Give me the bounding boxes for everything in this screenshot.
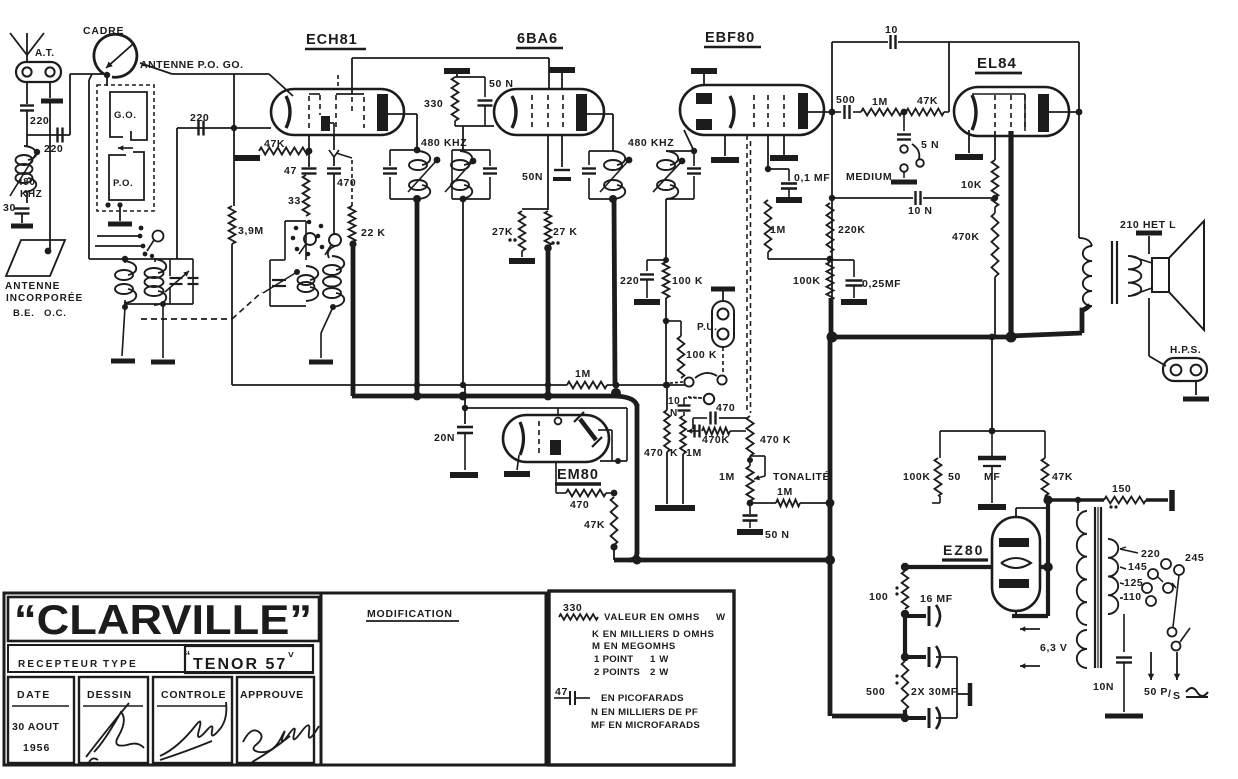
tube ECH81 (271, 89, 404, 135)
tap 220 (1120, 549, 1138, 553)
chassis bar (P.U.) (711, 287, 735, 292)
CONTROLE box (153, 677, 232, 763)
resistor 1M (EBF80 g2) (765, 200, 772, 252)
svg-text:EL84: EL84 (977, 55, 1017, 72)
capacitor 220 (to ECH81) (197, 121, 199, 136)
resistor 1M (AVC) (567, 382, 607, 389)
G.O. coil loop (110, 92, 147, 140)
switch MEDIUM (900, 145, 908, 153)
svg-text:O.C.: O.C. (44, 308, 67, 319)
EM80 control rect (550, 440, 561, 455)
terminal bar 210 (1136, 231, 1162, 236)
svg-text:“CLARVILLE”: “CLARVILLE” (14, 596, 312, 643)
svg-text:EN PICOFARADS: EN PICOFARADS (601, 693, 684, 704)
PT primary lead (1077, 500, 1079, 511)
ground (27K) (521, 251, 523, 257)
svg-text:125: 125 (1124, 577, 1143, 589)
EL84 cathode (972, 95, 976, 130)
wire IFT1 sec top up (462, 126, 464, 150)
capacitor 220 (series) (56, 128, 58, 143)
resistor 27K left (519, 211, 526, 251)
node 16MF (901, 610, 909, 618)
capacitor 500 (832, 111, 841, 113)
capacitor 220 (det) (647, 259, 666, 261)
svg-text:220: 220 (190, 112, 209, 124)
wire A.T. gnd (49, 82, 51, 98)
svg-text:2X 30MF: 2X 30MF (911, 686, 958, 698)
variable cap padder (272, 279, 286, 281)
capacitor 10 (feedback) (832, 41, 888, 43)
ECH81 cathode (286, 96, 290, 128)
resistor 470K (vol top) (746, 416, 753, 456)
svg-text:100K: 100K (903, 471, 931, 483)
resistor 1M (agc) (683, 412, 685, 416)
capacitor 220 (A.T.) (20, 104, 34, 106)
EM80 target (580, 419, 596, 440)
chassis bar above EBF80 (691, 68, 717, 74)
svg-text:220: 220 (1141, 548, 1160, 560)
svg-text:47K: 47K (917, 95, 938, 107)
svg-text:470: 470 (644, 447, 663, 459)
wire y128 AVC cap row (177, 127, 271, 129)
svg-text:220: 220 (44, 143, 63, 155)
capacitor 0,25MF (830, 259, 854, 261)
svg-text:10N: 10N (1093, 681, 1114, 693)
wire tank x177 up (176, 128, 178, 259)
svg-text:480 KHZ: 480 KHZ (628, 137, 674, 149)
ground (ant coil pri) (122, 307, 125, 356)
thin AVC bus right (607, 384, 686, 386)
svg-text:A.T.: A.T. (35, 48, 54, 59)
P.O. coil loop (109, 152, 144, 200)
wire A.T. left down (26, 82, 28, 104)
svg-text:K EN MILLIERS D OMHS: K EN MILLIERS D OMHS (592, 629, 714, 640)
CLARVILLE box (8, 597, 319, 641)
svg-text:10: 10 (885, 24, 898, 36)
wire x1079 down (1078, 42, 1080, 238)
svg-text:G.O.: G.O. (114, 110, 136, 121)
svg-text:220: 220 (620, 275, 639, 287)
svg-text:RECEPTEUR: RECEPTEUR (18, 659, 99, 670)
DESSIN box (79, 677, 148, 763)
svg-text:VALEUR EN OMHS: VALEUR EN OMHS (604, 612, 700, 623)
svg-text:TONALITÉ: TONALITÉ (773, 470, 830, 483)
capacitor 10N (agc) (678, 404, 691, 406)
svg-text:500: 500 (836, 94, 855, 106)
thick bus 22K down (351, 244, 356, 396)
thick EZ80 cath up (1046, 500, 1050, 567)
coil IFT2 secondary (666, 150, 694, 152)
OT secondary (1128, 256, 1141, 296)
resistor 22K (349, 206, 356, 242)
svg-text:50 N: 50 N (765, 529, 790, 541)
wire 470 down (333, 174, 335, 234)
ECH81 osc anode (321, 116, 330, 131)
resistor 1M (coupling) (861, 109, 902, 116)
dashed gang link (141, 318, 232, 320)
svg-text:1M: 1M (777, 486, 793, 498)
thick drop to HT bus (829, 298, 834, 337)
node IFT1 bottom (413, 195, 421, 203)
node 27K (544, 244, 552, 252)
legend box (549, 591, 734, 765)
svg-text:22 K: 22 K (361, 227, 386, 239)
EM80 grid circle (555, 418, 562, 425)
top bus y58 (352, 57, 549, 59)
svg-text:3,9M: 3,9M (238, 225, 264, 237)
svg-text:100 K: 100 K (672, 275, 703, 287)
node det (663, 318, 669, 324)
svg-text:DATE: DATE (17, 689, 51, 701)
svg-text:30: 30 (3, 202, 16, 214)
thick screen lead (1008, 131, 1013, 337)
CONTROLE signature (160, 702, 226, 760)
svg-text:INCORPORÉE: INCORPORÉE (6, 291, 83, 304)
resistor 500 (902, 661, 909, 710)
thick x832 bottom (828, 339, 833, 716)
EBF80 anode lead (808, 111, 832, 113)
svg-text:1M: 1M (719, 471, 735, 483)
wire (21, 214, 23, 223)
wire IFT2 sec bottom (665, 199, 667, 260)
svg-text:ANTENNE: ANTENNE (5, 281, 60, 292)
node pot bottom (747, 500, 754, 507)
wire EM80 grid row (465, 407, 627, 409)
EM80 right routing (626, 408, 628, 461)
resistor 1M (tone) (750, 502, 776, 504)
thick OT bottom (1082, 305, 1090, 333)
EBF80 cathode (730, 96, 734, 128)
chassis bar above 6BA6 (549, 67, 575, 73)
speaker (1152, 258, 1169, 292)
svg-text:100 K: 100 K (686, 349, 717, 361)
svg-text:APPROUVE: APPROUVE (240, 689, 304, 701)
svg-text:480 KHZ: 480 KHZ (421, 137, 467, 149)
svg-text:W: W (716, 612, 726, 623)
ground (EM80 cath) (517, 455, 519, 470)
resistor 470K (det load) (666, 385, 668, 410)
thick line IFT1 to bus (415, 199, 420, 397)
svg-text:50N: 50N (522, 171, 543, 183)
svg-text:470 K: 470 K (760, 434, 791, 446)
resistor 330 (452, 77, 459, 121)
EZ80 heater lens (1001, 558, 1031, 568)
resistor 100K (det) (663, 262, 670, 298)
resistor 100K (bleeder) (939, 431, 941, 458)
EM80 cathode (520, 422, 524, 455)
heater arrows (1020, 628, 1040, 630)
wire (124, 259, 126, 263)
svg-text:47: 47 (555, 686, 568, 698)
coil IFT1 primary (418, 151, 430, 165)
capacitor 470 (osc grid) (327, 167, 341, 169)
antenne incorporee plate (6, 240, 65, 276)
resistor 220K (827, 203, 834, 252)
svg-text:6,3 V: 6,3 V (1040, 642, 1068, 654)
tuning cap 1 (variable) (169, 259, 171, 276)
ECH81 anode lead (388, 113, 417, 115)
title block outer (4, 593, 321, 765)
P.U. dashed lead (722, 347, 724, 375)
svg-text:10K: 10K (961, 179, 982, 191)
svg-text:470: 470 (716, 402, 735, 414)
svg-text:2 W: 2 W (650, 667, 669, 678)
resistor 47K (EM80) (611, 497, 618, 545)
svg-text:480: 480 (17, 177, 36, 188)
wire cadre left to tank (88, 80, 90, 259)
pot wiper (750, 455, 765, 457)
EZ80 plate bottom (999, 579, 1029, 588)
svg-text:150: 150 (1112, 483, 1131, 495)
resistor 470 (EM80) (556, 492, 566, 494)
svg-text:S: S (1173, 690, 1181, 702)
thick x1048 down (1046, 567, 1050, 616)
svg-text:33: 33 (288, 195, 301, 207)
resistor 47K (coupling) (906, 109, 944, 116)
resistor 470K (EL84 g1) (994, 207, 996, 213)
tap 145 (1120, 567, 1126, 569)
osc coil right (328, 246, 335, 258)
resistor 33 (303, 175, 310, 216)
svg-text:K: K (670, 447, 678, 459)
svg-text:KHZ: KHZ (20, 189, 42, 200)
svg-text:47K: 47K (264, 138, 285, 150)
EBF80 anode plate (798, 93, 808, 129)
EZ80 top lead (1015, 508, 1017, 517)
6BA6 cathode (512, 96, 516, 128)
ground (30pF) (11, 224, 33, 229)
DESSIN signature (86, 703, 144, 762)
capacitor 10N (914, 191, 916, 205)
wire 27K tops (522, 208, 548, 210)
svg-text:50: 50 (948, 471, 961, 483)
svg-text:470: 470 (570, 499, 589, 511)
6BA6 grid dashes (531, 95, 533, 130)
ground (47K) (234, 155, 260, 161)
svg-text:N: N (670, 408, 678, 419)
resistor 27K right (545, 211, 552, 246)
terminal bar (aerial H T) (1169, 490, 1175, 511)
IFT1 primary frame (390, 149, 420, 151)
wire osc coils gnd (330, 304, 336, 310)
svg-text:27 K: 27 K (553, 226, 578, 238)
antenna socket (16, 62, 61, 82)
wire tank top (89, 258, 193, 260)
tube EM80 (503, 415, 609, 462)
arrow between GO PO (118, 147, 133, 149)
wire HPS drop (1148, 298, 1150, 356)
core arrow IFT1 sec (445, 161, 473, 192)
chassis 30MF (936, 656, 957, 658)
svg-text:1956: 1956 (23, 742, 50, 754)
capacitor 50N (6BA6 cath) (561, 135, 563, 167)
modification box (321, 593, 546, 765)
coil IFT1 secondary (460, 151, 472, 165)
row 470K cap+res (687, 430, 700, 432)
IFT1 secondary frame (452, 149, 490, 151)
pot 1M volume (749, 456, 751, 466)
svg-text:P.U.: P.U. (697, 322, 718, 333)
switch wires left (97, 235, 140, 237)
chassis bar (330) (444, 68, 470, 74)
svg-text:1 W: 1 W (650, 654, 669, 665)
resistor 100K (ebf dec) (827, 262, 834, 300)
APPROUVE box (237, 677, 314, 763)
ECH81 grid dashes (308, 96, 310, 130)
wire Y to 22K (336, 153, 352, 158)
svg-text:16 MF: 16 MF (920, 593, 953, 605)
switch wiper (band) (153, 231, 164, 242)
svg-text:1 POINT: 1 POINT (594, 654, 633, 665)
svg-text:145: 145 (1128, 561, 1147, 573)
EL84 anode plate (1038, 94, 1049, 132)
svg-text:2 POINTS: 2 POINTS (594, 667, 640, 678)
6BA6 anode plate (576, 94, 587, 131)
svg-text:110: 110 (1123, 591, 1142, 603)
svg-text:P.O.: P.O. (113, 178, 133, 189)
node B+ first (1043, 495, 1052, 504)
osc coil left (306, 266, 318, 280)
mains arrows (1150, 652, 1152, 680)
coil 480KHZ (antenna) (26, 135, 28, 146)
svg-text:470K: 470K (952, 231, 980, 243)
APPROUVE signature (243, 725, 319, 762)
wire 100K btm (932, 502, 940, 504)
tube 6BA6 (494, 89, 604, 135)
antenna coil secondary (154, 259, 166, 273)
capacitor 50N (tone) (743, 514, 758, 517)
svg-text:470K: 470K (702, 434, 730, 446)
capacitor 30MF a (905, 655, 926, 659)
svg-text:H.P.S.: H.P.S. (1170, 345, 1201, 356)
resistor 47K (filter) (1044, 431, 1046, 458)
thick bus y560 (614, 558, 830, 563)
EBF80 diode plates (696, 93, 712, 104)
svg-text:N EN MILLIERS DE PF: N EN MILLIERS DE PF (591, 707, 698, 718)
resistor 47K (ECH81 cath) (308, 135, 310, 151)
svg-text:500: 500 (866, 686, 885, 698)
svg-text:B.E.: B.E. (13, 308, 35, 319)
mains sine (1186, 688, 1208, 696)
wire HPS gnd (1195, 381, 1197, 395)
row 470pF (692, 418, 694, 429)
capacitor 50N (6BA6 in) (484, 77, 486, 97)
switch PU/radio (684, 377, 693, 386)
dashed coil box (97, 85, 154, 211)
PT primary (1077, 511, 1087, 625)
mains selector wires (1158, 577, 1163, 582)
svg-text:1M: 1M (686, 447, 702, 459)
trim arrow through coil (10, 152, 37, 196)
6BA6 anode lead (587, 113, 613, 115)
capacitor 30MF b (905, 716, 926, 720)
tuning cap 2 (trimmer) (188, 277, 199, 279)
wire diode to IFT2 (684, 130, 694, 151)
wire x832 spine (831, 42, 833, 300)
EBF80 grid dashes (753, 95, 755, 131)
EL84 grid dashes (994, 95, 996, 131)
wire junction 220 (27, 134, 70, 136)
svg-text:220: 220 (30, 115, 49, 127)
svg-text:27K: 27K (492, 226, 513, 238)
capacitor 16MF (905, 614, 926, 618)
ECH81 dashes above (337, 75, 339, 89)
resistor 10K (994, 131, 996, 160)
svg-text:30 AOUT: 30 AOUT (12, 721, 60, 733)
capacitor 30 (15, 207, 30, 209)
thin AVC bus (232, 384, 567, 386)
svg-text:20N: 20N (434, 432, 455, 444)
thick bus 27K down (546, 248, 551, 397)
resistor 3,9M (233, 128, 235, 206)
cadre loop (94, 34, 137, 77)
capacitor 20N (464, 385, 466, 424)
wire sec to speaker (1130, 256, 1152, 263)
svg-text:EZ80: EZ80 (943, 542, 984, 558)
svg-text:210 HET L: 210 HET L (1120, 219, 1176, 231)
ground (EBF80 cathode) (724, 135, 726, 156)
cadre arrow (106, 44, 133, 68)
ground (EBF80 g3) (783, 135, 785, 155)
antenna A.T. mast (10, 33, 44, 55)
capacitor 0,1MF (768, 168, 789, 170)
thick x905 down (903, 614, 907, 661)
svg-text:470: 470 (337, 177, 356, 189)
filter top row (940, 430, 1045, 432)
svg-text:100K: 100K (793, 275, 821, 287)
svg-text:MODIFICATION: MODIFICATION (367, 608, 453, 620)
capacitor IFT1 pri (383, 167, 397, 169)
ground (coil box) (119, 205, 121, 221)
node IFT2 pri bottom (609, 195, 617, 203)
capacitor IFT1 sec (483, 167, 497, 169)
thick bus HT2 (352, 394, 612, 399)
resistor 100K (PU divider) (666, 320, 681, 322)
svg-text:EM80: EM80 (557, 467, 599, 483)
thick elbow (612, 396, 637, 406)
PT core (1094, 507, 1096, 668)
6BA6 cathode chain (547, 135, 549, 210)
wire tank right (192, 259, 194, 304)
svg-text:5 N: 5 N (921, 139, 939, 151)
svg-text:0,1 MF: 0,1 MF (794, 172, 830, 184)
thick HT bus (832, 335, 1011, 340)
node EZ80 right (1043, 562, 1053, 572)
tap 110 (1120, 597, 1123, 599)
svg-text:330: 330 (424, 98, 443, 110)
ECH81 grid2 junction Y (333, 135, 335, 150)
tube EL84 (954, 87, 1069, 136)
svg-text:EBF80: EBF80 (705, 30, 755, 46)
OT primary (1079, 238, 1092, 246)
svg-text:50 N: 50 N (489, 78, 514, 90)
thick bottom bus (832, 714, 905, 719)
capacitor 50MF (991, 431, 993, 456)
node IFT1 sec bottom (460, 196, 467, 203)
recepteur row box (8, 645, 313, 672)
wire cadre right lead (140, 63, 172, 74)
svg-text:˅: ˅ (288, 650, 294, 661)
svg-text:TYPE: TYPE (103, 659, 138, 670)
capacitor 47 (308, 151, 310, 167)
svg-text:10 N: 10 N (908, 205, 933, 217)
node (234,74) (233, 73, 235, 75)
svg-text:ECH81: ECH81 (306, 32, 358, 48)
wire diag to ECH81 (269, 74, 293, 96)
svg-text:/: / (1168, 688, 1172, 700)
tube EZ80 (992, 517, 1040, 611)
svg-text:47K: 47K (1052, 471, 1073, 483)
